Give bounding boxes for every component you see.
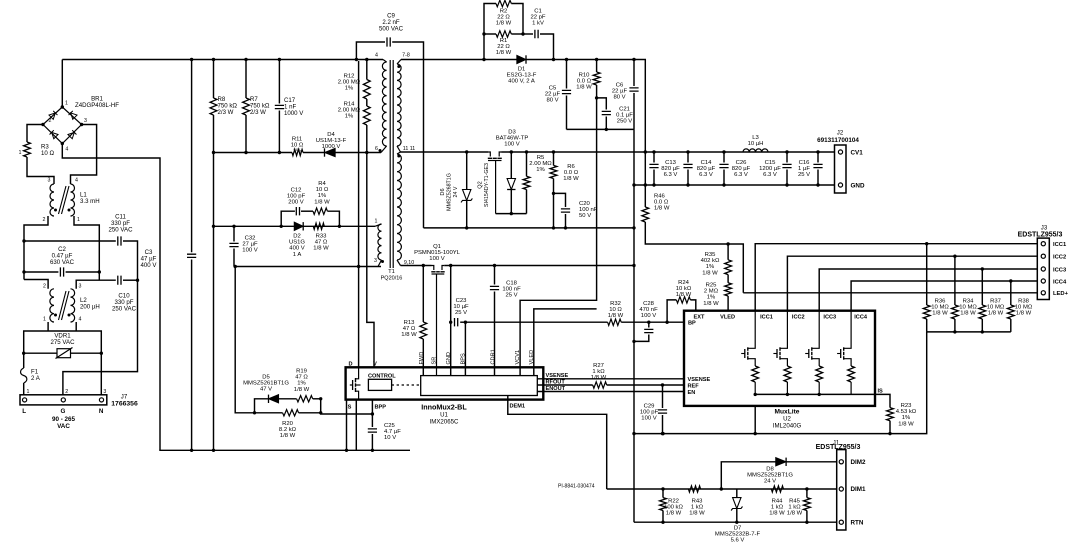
- svg-text:ICC4: ICC4: [854, 315, 868, 321]
- svg-text:MMSZ5261BT1G: MMSZ5261BT1G: [243, 381, 289, 387]
- svg-text:C23: C23: [456, 298, 468, 304]
- wire L1 pin2 to left EMI rail: [24, 216, 48, 280]
- wire output ground rail: [634, 184, 835, 186]
- resistors R35 and R25 on VLED divider: [727, 244, 729, 260]
- svg-text:10 µH: 10 µH: [748, 141, 764, 147]
- wire secondary ground bus: [634, 433, 890, 435]
- capacitor C20: [554, 193, 566, 207]
- svg-text:250 VAC: 250 VAC: [112, 305, 137, 312]
- svg-text:47 V: 47 V: [260, 387, 272, 393]
- svg-text:10 MΩ: 10 MΩ: [931, 305, 949, 311]
- svg-text:C20: C20: [579, 201, 591, 207]
- svg-text:InnoMux2-BL: InnoMux2-BL: [421, 403, 467, 412]
- svg-text:22 pF: 22 pF: [530, 15, 545, 21]
- svg-text:US1G: US1G: [289, 240, 305, 246]
- svg-text:1/8 W: 1/8 W: [280, 433, 296, 439]
- MOSFET Q1 sync rectifier: [431, 266, 444, 376]
- svg-text:2 MΩ: 2 MΩ: [704, 289, 719, 295]
- inductor L2: [50, 289, 75, 322]
- capacitor C32: [233, 226, 235, 241]
- capacitor C1: [523, 33, 533, 35]
- svg-text:100 V: 100 V: [641, 416, 656, 422]
- resistor R43: [688, 486, 700, 492]
- svg-text:VSENSE: VSENSE: [546, 373, 569, 379]
- svg-text:1%: 1%: [707, 295, 716, 301]
- svg-text:691311700104: 691311700104: [817, 137, 859, 144]
- svg-text:6: 6: [375, 146, 378, 152]
- svg-text:47 Ω: 47 Ω: [315, 240, 328, 246]
- svg-text:1/8 W: 1/8 W: [960, 311, 976, 317]
- resistor R44: [771, 486, 783, 492]
- svg-text:2.00 MΩ: 2.00 MΩ: [529, 161, 552, 167]
- capacitor C6: [633, 60, 635, 87]
- svg-text:6.3 V: 6.3 V: [664, 172, 678, 178]
- svg-text:PSMN015-100YL: PSMN015-100YL: [414, 250, 461, 256]
- svg-text:EDSTLZ955/3: EDSTLZ955/3: [816, 444, 861, 451]
- svg-text:D3: D3: [508, 130, 516, 136]
- svg-text:DEM1: DEM1: [510, 403, 526, 409]
- svg-text:2.00 MΩ: 2.00 MΩ: [338, 80, 361, 86]
- wire RTN row: [634, 521, 837, 523]
- svg-text:IML2040G: IML2040G: [773, 423, 802, 430]
- svg-text:1000 V: 1000 V: [322, 144, 341, 150]
- svg-text:250 VAC: 250 VAC: [109, 226, 134, 233]
- svg-text:1200 µF: 1200 µF: [759, 166, 781, 172]
- wire source line to ground bus: [355, 400, 357, 451]
- svg-text:1 kΩ: 1 kΩ: [771, 505, 784, 511]
- svg-text:1 kΩ: 1 kΩ: [592, 369, 605, 375]
- svg-text:PQ20/16: PQ20/16: [381, 275, 403, 281]
- svg-text:10 MΩ: 10 MΩ: [959, 305, 977, 311]
- svg-text:100 pF: 100 pF: [287, 194, 306, 200]
- svg-text:4: 4: [375, 53, 378, 59]
- svg-text:250 V: 250 V: [617, 119, 632, 125]
- svg-text:R43: R43: [692, 499, 704, 505]
- svg-text:47 Ω: 47 Ω: [403, 326, 416, 332]
- svg-text:4: 4: [65, 147, 68, 153]
- capacitor C14: [687, 152, 689, 163]
- svg-text:1/8 W: 1/8 W: [591, 375, 607, 381]
- svg-text:C25: C25: [384, 423, 396, 429]
- svg-text:500 VAC: 500 VAC: [379, 25, 404, 32]
- svg-text:1/8 W: 1/8 W: [1016, 311, 1032, 317]
- svg-text:470 nF: 470 nF: [639, 307, 658, 313]
- diode D5: [255, 399, 269, 413]
- svg-text:3.3 mH: 3.3 mH: [80, 198, 100, 205]
- wire BR1 pin3 to L1 pin4: [71, 125, 97, 185]
- svg-text:N: N: [99, 408, 104, 415]
- svg-text:10 Ω: 10 Ω: [41, 150, 54, 157]
- svg-text:D4: D4: [327, 132, 335, 138]
- svg-text:6.3 V: 6.3 V: [699, 172, 713, 178]
- svg-text:C1: C1: [534, 9, 542, 15]
- svg-text:1766356: 1766356: [111, 401, 138, 408]
- svg-text:C14: C14: [701, 160, 713, 166]
- svg-text:R23: R23: [901, 403, 913, 409]
- wire secondary top rail to D1: [401, 59, 517, 61]
- svg-text:2/3 W: 2/3 W: [250, 109, 266, 116]
- connector J3: [1037, 238, 1049, 299]
- svg-text:Z4DGP408L-HF: Z4DGP408L-HF: [75, 102, 119, 109]
- capacitor C25 on BPP: [371, 400, 373, 427]
- svg-text:1/8 W: 1/8 W: [703, 301, 719, 307]
- wire EMI rail to L2 pin2: [24, 280, 48, 289]
- resistor R22: [662, 489, 664, 498]
- capacitor C26: [723, 152, 725, 163]
- wire ICC1 net: [755, 244, 1037, 311]
- svg-text:R25: R25: [706, 283, 718, 289]
- svg-text:R24: R24: [678, 280, 690, 286]
- svg-text:MMSZ5268T1G: MMSZ5268T1G: [447, 173, 453, 211]
- capacitor C17: [278, 60, 280, 104]
- svg-text:R6: R6: [567, 164, 575, 170]
- capacitor C21: [597, 98, 607, 110]
- wire pin 9,10 row: [401, 265, 432, 267]
- svg-text:FWD: FWD: [419, 352, 425, 365]
- resistor R12: [366, 60, 368, 80]
- resistor R19: [279, 398, 297, 400]
- svg-text:0.0 Ω: 0.0 Ω: [577, 79, 592, 85]
- svg-text:C12: C12: [291, 188, 302, 194]
- svg-text:4.7 µF: 4.7 µF: [384, 429, 401, 435]
- svg-text:100 pF: 100 pF: [640, 410, 659, 416]
- svg-text:22 µF: 22 µF: [612, 89, 628, 95]
- svg-text:D: D: [348, 362, 352, 368]
- svg-text:R1: R1: [500, 38, 508, 44]
- svg-text:MMSZ5252BT1G: MMSZ5252BT1G: [747, 472, 793, 478]
- fuse F1: [23, 353, 25, 368]
- capacitor C13: [653, 152, 655, 163]
- wire drain line from transformer to U1 D pin: [358, 61, 360, 367]
- wire R10 down to VCV1: [520, 85, 597, 376]
- wire IS bus inside U2: [755, 393, 875, 395]
- svg-text:R10: R10: [579, 73, 591, 79]
- svg-text:820 µF: 820 µF: [697, 166, 716, 172]
- svg-text:3: 3: [103, 389, 106, 395]
- svg-text:EDSTLZ955/3: EDSTLZ955/3: [1018, 231, 1063, 238]
- svg-text:1%: 1%: [345, 86, 354, 92]
- svg-text:D2: D2: [293, 234, 301, 240]
- svg-text:100 kΩ: 100 kΩ: [664, 505, 683, 511]
- svg-text:1%: 1%: [297, 381, 306, 387]
- svg-text:1%: 1%: [293, 149, 302, 155]
- zener diode D7: [736, 489, 738, 498]
- svg-text:4.53 kΩ: 4.53 kΩ: [896, 409, 917, 415]
- svg-text:R22: R22: [668, 499, 679, 505]
- capacitor C15: [786, 152, 788, 163]
- svg-text:D8: D8: [766, 466, 774, 472]
- resistor R37: [981, 269, 983, 305]
- svg-text:27 µF: 27 µF: [242, 242, 258, 248]
- svg-text:24 V: 24 V: [453, 186, 459, 197]
- wire DIM1 row from DEM1: [607, 488, 837, 490]
- control block of U1: [368, 379, 391, 390]
- svg-text:50 V: 50 V: [579, 213, 591, 219]
- svg-text:100 V: 100 V: [429, 256, 444, 262]
- wire startup row: [214, 152, 293, 154]
- svg-text:6.3 V: 6.3 V: [763, 172, 777, 178]
- capacitor C11: [24, 240, 116, 242]
- svg-text:ICC3: ICC3: [1053, 267, 1067, 273]
- wire BPS pin column: [464, 322, 466, 375]
- resistor R13 on FWD: [422, 266, 424, 323]
- svg-text:PI-8841-030474: PI-8841-030474: [558, 483, 595, 489]
- svg-text:1/8 W: 1/8 W: [666, 511, 682, 517]
- svg-text:R2: R2: [500, 9, 508, 15]
- resistor R3: [27, 125, 43, 143]
- svg-text:R44: R44: [772, 499, 784, 505]
- svg-text:4: 4: [79, 317, 82, 323]
- svg-text:10 Ω: 10 Ω: [291, 143, 304, 149]
- svg-text:U1: U1: [440, 412, 448, 419]
- svg-text:1 kΩ: 1 kΩ: [691, 505, 704, 511]
- svg-text:90 - 265: 90 - 265: [52, 416, 76, 423]
- svg-text:1: 1: [19, 150, 22, 156]
- svg-text:5.6 V: 5.6 V: [731, 538, 745, 544]
- svg-text:MMSZ5232B-7-F: MMSZ5232B-7-F: [715, 532, 761, 538]
- svg-text:VAC: VAC: [57, 423, 70, 430]
- svg-text:EN: EN: [688, 390, 696, 396]
- diode D2: [294, 222, 303, 230]
- svg-text:R45: R45: [789, 499, 801, 505]
- MOSFET Q2 inline switch: [488, 152, 502, 214]
- resistor R20: [283, 410, 299, 416]
- svg-text:1%: 1%: [902, 415, 911, 421]
- wire R14 down to V pin of U1: [367, 125, 374, 367]
- svg-text:ES2G-13-F: ES2G-13-F: [507, 73, 537, 79]
- svg-text:1/8 W: 1/8 W: [787, 511, 803, 517]
- svg-text:ICC1: ICC1: [1053, 242, 1067, 248]
- svg-text:24 V: 24 V: [764, 479, 776, 485]
- resistor R32: [608, 319, 622, 325]
- svg-text:0.0 Ω: 0.0 Ω: [564, 170, 579, 176]
- svg-text:80 V: 80 V: [613, 95, 625, 101]
- resistor R23 on IS: [875, 394, 890, 407]
- svg-text:25 V: 25 V: [798, 172, 810, 178]
- svg-text:400 V: 400 V: [289, 246, 304, 252]
- svg-text:6.3 V: 6.3 V: [734, 172, 748, 178]
- resistor R6: [553, 152, 555, 165]
- varistor VDR1: [24, 352, 57, 354]
- svg-text:V: V: [373, 362, 377, 368]
- svg-text:22 µF: 22 µF: [545, 92, 561, 98]
- svg-text:C28: C28: [643, 301, 655, 307]
- connector J1: [837, 450, 846, 530]
- svg-text:1/8 W: 1/8 W: [689, 511, 705, 517]
- svg-text:R32: R32: [610, 301, 621, 307]
- svg-text:402 kΩ: 402 kΩ: [701, 258, 720, 264]
- svg-text:10 MΩ: 10 MΩ: [1015, 305, 1033, 311]
- svg-text:1/8 W: 1/8 W: [702, 270, 718, 276]
- svg-text:ICC3: ICC3: [823, 315, 836, 321]
- svg-text:ICC1: ICC1: [760, 315, 773, 321]
- capacitor C23: [451, 321, 452, 323]
- wire Q1 source row to backbone: [444, 265, 634, 267]
- svg-text:US1M-13-F: US1M-13-F: [316, 138, 347, 144]
- svg-text:R20: R20: [282, 421, 294, 427]
- wire D5 loop right node to BPP line: [321, 399, 373, 414]
- wire ICC4 net: [851, 281, 1037, 311]
- svg-text:ICC2: ICC2: [792, 315, 805, 321]
- svg-text:100 nF: 100 nF: [502, 287, 521, 293]
- svg-text:1: 1: [77, 217, 80, 223]
- capacitor C29: [662, 385, 664, 408]
- capacitor C12: [281, 211, 295, 226]
- svg-text:1 µF: 1 µF: [798, 166, 810, 172]
- svg-text:1/8 W: 1/8 W: [294, 387, 310, 393]
- svg-text:RTN: RTN: [851, 519, 864, 526]
- connector J2: [835, 145, 847, 193]
- svg-text:8.2 kΩ: 8.2 kΩ: [279, 427, 297, 433]
- wire VSENSE row: [537, 378, 684, 380]
- svg-text:ICC4: ICC4: [1053, 279, 1067, 285]
- svg-text:C5: C5: [549, 86, 557, 92]
- svg-text:ICC2: ICC2: [1053, 255, 1066, 261]
- svg-text:D1: D1: [518, 67, 526, 73]
- capacitor C16: [817, 152, 819, 163]
- svg-text:D6: D6: [440, 188, 446, 195]
- svg-text:1 A: 1 A: [293, 252, 302, 258]
- svg-text:R5: R5: [537, 155, 545, 161]
- wire primary drain row pin 3: [234, 266, 381, 268]
- svg-text:3: 3: [48, 178, 51, 184]
- svg-text:GND: GND: [851, 183, 865, 190]
- svg-text:10 Ω: 10 Ω: [609, 307, 622, 313]
- resistor R24: [667, 300, 676, 322]
- resistor R33: [313, 223, 324, 229]
- svg-text:1/8 W: 1/8 W: [313, 246, 329, 252]
- svg-text:BP: BP: [688, 320, 696, 326]
- svg-text:DIM2: DIM2: [851, 459, 867, 466]
- svg-text:R34: R34: [963, 299, 975, 305]
- svg-text:1/8 W: 1/8 W: [401, 332, 417, 338]
- wire bias ground rail: [567, 128, 635, 130]
- svg-text:C29: C29: [644, 404, 655, 410]
- svg-text:G: G: [61, 408, 66, 415]
- svg-text:400 V, 2 A: 400 V, 2 A: [508, 79, 535, 85]
- svg-text:80 V: 80 V: [546, 98, 558, 104]
- capacitor C28: [648, 322, 650, 327]
- svg-text:820 µF: 820 µF: [661, 166, 680, 172]
- svg-text:R11: R11: [292, 137, 302, 143]
- wire secondary ground row: [424, 227, 635, 229]
- secondary ground backbone: [633, 129, 635, 522]
- wire D5 loop left branch: [235, 267, 254, 413]
- svg-text:CONTROL: CONTROL: [368, 374, 396, 380]
- inductor L3: [743, 149, 768, 152]
- svg-text:100 nF: 100 nF: [579, 207, 598, 213]
- svg-text:U2: U2: [783, 416, 791, 423]
- resistor R4: [301, 210, 313, 212]
- resistor R11: [292, 149, 303, 155]
- svg-text:1/8 W: 1/8 W: [576, 85, 592, 91]
- svg-text:1/8 W: 1/8 W: [314, 199, 330, 205]
- svg-text:D7: D7: [734, 526, 742, 532]
- svg-text:7-8: 7-8: [402, 53, 410, 59]
- svg-text:100 V: 100 V: [641, 313, 656, 319]
- svg-text:22 Ω: 22 Ω: [497, 44, 510, 50]
- diode D1: [517, 55, 526, 63]
- svg-text:T1: T1: [388, 269, 395, 275]
- svg-text:2: 2: [43, 284, 46, 290]
- svg-text:1%: 1%: [318, 193, 327, 199]
- wire VLED pin row: [534, 309, 597, 376]
- pin DEM1 of U1: [508, 396, 607, 490]
- svg-text:J2: J2: [837, 130, 844, 137]
- svg-text:RFOUT: RFOUT: [546, 379, 566, 385]
- internal MOSFET of U1: [350, 367, 361, 399]
- dashed link control to controller: [392, 384, 421, 386]
- svg-text:10 µF: 10 µF: [453, 304, 469, 310]
- wire top rail from bridge to transformer pin 4: [62, 59, 383, 61]
- svg-text:1/8 W: 1/8 W: [654, 206, 670, 212]
- resistor R7: [245, 60, 247, 99]
- svg-text:100 V: 100 V: [504, 142, 519, 148]
- svg-text:R19: R19: [296, 369, 307, 375]
- svg-text:C21: C21: [619, 107, 630, 113]
- IC U1 inner controller block: [421, 376, 538, 396]
- svg-text:100 V: 100 V: [242, 248, 257, 254]
- svg-text:1: 1: [43, 317, 46, 323]
- resistor R10: [596, 60, 598, 73]
- svg-text:3: 3: [79, 284, 82, 290]
- svg-text:0.1 µF: 0.1 µF: [616, 113, 633, 119]
- resistor R34: [954, 256, 956, 305]
- svg-text:25 V: 25 V: [505, 293, 517, 299]
- svg-text:2.00 MΩ: 2.00 MΩ: [338, 108, 361, 114]
- capacitor C2: [24, 271, 58, 273]
- svg-text:VLED: VLED: [720, 315, 735, 321]
- wire U2 ground drop: [754, 406, 756, 434]
- svg-text:R12: R12: [344, 74, 355, 80]
- resistor R8: [213, 60, 215, 99]
- svg-text:1: 1: [375, 219, 378, 225]
- capacitor C18 on CDR1: [494, 266, 496, 285]
- svg-text:2 A: 2 A: [31, 375, 41, 382]
- svg-text:C15: C15: [765, 160, 777, 166]
- svg-text:1/8 W: 1/8 W: [676, 292, 692, 298]
- svg-text:R33: R33: [316, 234, 328, 240]
- svg-text:10 V: 10 V: [384, 435, 396, 441]
- IC U1 InnoMux2-BL outline: [346, 367, 544, 399]
- resistor R2: [484, 4, 496, 60]
- svg-text:275 VAC: 275 VAC: [51, 339, 76, 346]
- svg-text:VSENSE: VSENSE: [688, 377, 711, 383]
- svg-text:11 11: 11 11: [403, 146, 416, 152]
- wire ICC2 net: [787, 256, 1037, 311]
- svg-text:1/8 W: 1/8 W: [608, 313, 624, 319]
- wire BR1 top riser: [61, 60, 63, 108]
- svg-text:1/8 W: 1/8 W: [988, 311, 1004, 317]
- resistor R1: [484, 33, 496, 35]
- svg-text:C18: C18: [506, 281, 518, 287]
- svg-text:1/8 W: 1/8 W: [563, 176, 579, 182]
- svg-text:R27: R27: [593, 363, 604, 369]
- svg-text:MuxLite: MuxLite: [775, 409, 800, 416]
- wire J7 pin3 neutral: [100, 353, 102, 395]
- svg-text:Q2: Q2: [478, 181, 484, 188]
- svg-text:2: 2: [49, 118, 52, 124]
- resistor R36: [926, 244, 928, 305]
- svg-text:200 µH: 200 µH: [80, 303, 100, 310]
- svg-text:L: L: [22, 408, 26, 415]
- wire bleeder bus down to R23 node: [927, 331, 1011, 333]
- svg-text:BPP: BPP: [375, 404, 387, 410]
- svg-text:400 V: 400 V: [141, 262, 158, 269]
- svg-text:C32: C32: [245, 236, 256, 242]
- svg-text:LED+: LED+: [1053, 291, 1069, 297]
- svg-text:630 VAC: 630 VAC: [50, 259, 75, 266]
